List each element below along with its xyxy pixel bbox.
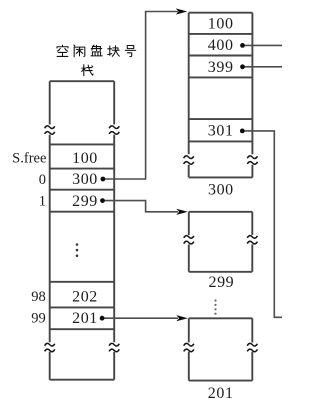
svg-text:98: 98 bbox=[31, 289, 46, 305]
svg-text:201: 201 bbox=[208, 385, 234, 402]
svg-text:399: 399 bbox=[208, 59, 234, 76]
svg-text:100: 100 bbox=[72, 150, 98, 167]
svg-text:300: 300 bbox=[208, 181, 234, 198]
svg-text:300: 300 bbox=[72, 171, 98, 188]
svg-text:0: 0 bbox=[39, 172, 46, 188]
svg-text:1: 1 bbox=[39, 193, 46, 209]
svg-text:S.free: S.free bbox=[12, 150, 46, 166]
svg-text:202: 202 bbox=[72, 289, 98, 306]
svg-text:299: 299 bbox=[72, 193, 98, 210]
svg-text:400: 400 bbox=[208, 37, 234, 54]
svg-text:299: 299 bbox=[208, 274, 234, 291]
svg-text:100: 100 bbox=[208, 16, 234, 33]
svg-text:99: 99 bbox=[31, 311, 46, 327]
svg-text:201: 201 bbox=[72, 310, 98, 327]
svg-text:301: 301 bbox=[208, 123, 234, 140]
